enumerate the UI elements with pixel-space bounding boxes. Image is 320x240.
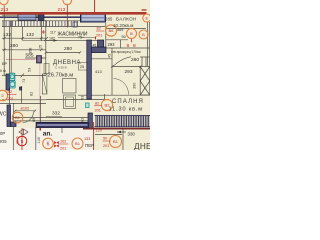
svg-text:В2: В2 — [105, 103, 111, 108]
svg-text:БАЛКОН: БАЛКОН — [116, 17, 137, 22]
svg-text:10.20кв.м: 10.20кв.м — [113, 23, 133, 28]
svg-text:140: 140 — [37, 137, 41, 143]
svg-text:132: 132 — [3, 32, 11, 38]
svg-text:ап.: ап. — [43, 131, 53, 138]
svg-text:ЖАСМИНИИ: ЖАСМИНИИ — [58, 32, 88, 38]
svg-text:В1: В1 — [113, 139, 119, 144]
svg-text:293: 293 — [108, 42, 116, 47]
svg-text:213: 213 — [58, 7, 66, 12]
svg-text:В6: В6 — [109, 28, 115, 33]
svg-text:293: 293 — [125, 69, 133, 75]
svg-text:82: 82 — [97, 27, 101, 31]
svg-text:201: 201 — [103, 144, 109, 148]
svg-text:50: 50 — [122, 35, 126, 39]
svg-text:182: 182 — [49, 37, 55, 41]
svg-text:СПАЛНЯ: СПАЛНЯ — [112, 99, 144, 105]
svg-text:332: 332 — [52, 111, 60, 117]
svg-text:Б: Б — [142, 32, 145, 37]
svg-text:11.30 кв.м: 11.30 кв.м — [109, 106, 143, 112]
svg-text:ПЕР: ПЕР — [85, 143, 94, 148]
svg-text:213: 213 — [1, 7, 9, 12]
svg-text:73: 73 — [22, 79, 26, 83]
svg-text:65: 65 — [32, 118, 36, 122]
svg-text:82: 82 — [30, 92, 34, 96]
svg-text:390: 390 — [133, 83, 137, 89]
svg-text:201: 201 — [8, 97, 14, 101]
svg-text:413: 413 — [95, 69, 102, 74]
svg-text:201: 201 — [95, 109, 101, 113]
svg-text:201: 201 — [96, 34, 102, 38]
svg-text:201: 201 — [60, 147, 66, 151]
svg-text:ДНЕВ: ДНЕВ — [134, 142, 150, 150]
svg-text:WC.: WC. — [0, 112, 8, 118]
svg-text:120: 120 — [96, 129, 102, 133]
svg-text:280: 280 — [10, 43, 18, 49]
svg-text:БР: БР — [2, 62, 7, 66]
svg-text:ап.5: ап.5 — [15, 135, 20, 144]
svg-text:358: 358 — [29, 48, 33, 54]
svg-text:8: 8 — [133, 43, 136, 49]
svg-text:330: 330 — [128, 132, 136, 137]
svg-text:В1: В1 — [75, 141, 81, 146]
svg-text:45: 45 — [108, 54, 112, 58]
svg-text:280: 280 — [64, 46, 72, 52]
svg-text:82: 82 — [95, 102, 99, 106]
svg-text:117: 117 — [50, 31, 56, 35]
svg-text:62: 62 — [81, 118, 85, 122]
svg-text:С 4.30 В: С 4.30 В — [55, 66, 67, 70]
svg-text:132: 132 — [26, 32, 34, 38]
svg-text:45: 45 — [93, 44, 97, 48]
svg-text:565: 565 — [117, 28, 123, 32]
svg-text:В2: В2 — [8, 90, 13, 94]
svg-text:В1: В1 — [15, 115, 21, 120]
svg-text:отв.прозорец 170см: отв.прозорец 170см — [111, 50, 141, 54]
svg-text:280: 280 — [131, 57, 139, 63]
svg-text:53: 53 — [81, 96, 85, 100]
svg-text:285: 285 — [105, 17, 113, 22]
svg-text:102: 102 — [60, 140, 66, 144]
svg-text:В: В — [130, 31, 133, 36]
svg-text:0Р: 0Р — [0, 131, 5, 136]
svg-text:Ю5: Ю5 — [0, 139, 7, 144]
svg-text:8: 8 — [127, 43, 130, 49]
svg-text:26.70кв.м: 26.70кв.м — [48, 73, 74, 79]
svg-text:53: 53 — [28, 68, 32, 72]
svg-text:25: 25 — [39, 45, 43, 49]
svg-text:ø102: ø102 — [21, 107, 30, 111]
svg-text:Е: Е — [145, 16, 148, 21]
svg-text:6: 6 — [47, 142, 50, 148]
svg-text:0 м: 0 м — [0, 69, 6, 73]
svg-text:133: 133 — [84, 137, 90, 141]
svg-text:50: 50 — [103, 137, 107, 141]
